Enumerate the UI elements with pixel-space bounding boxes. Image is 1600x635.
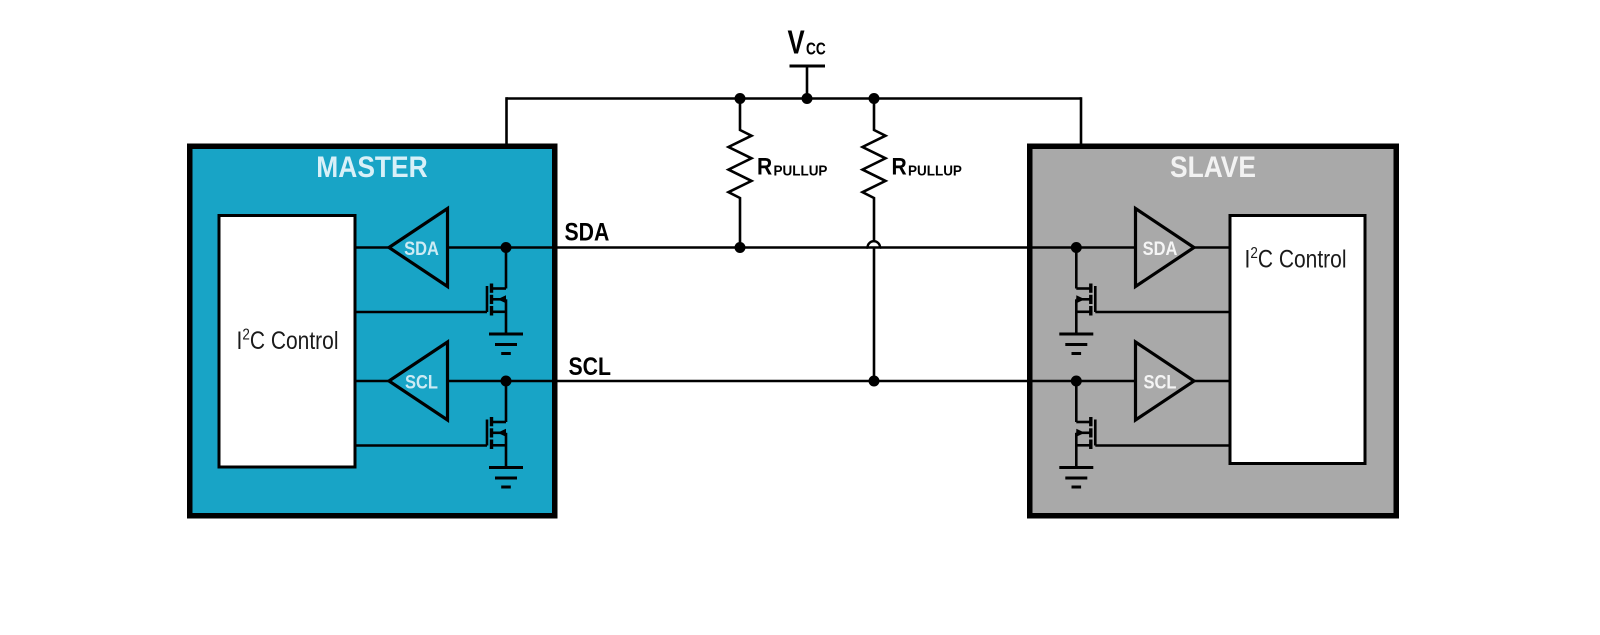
wire slave SDA tip to box — [1194, 246, 1230, 249]
svg-text:SCL: SCL — [569, 352, 611, 380]
svg-text:R: R — [892, 152, 908, 180]
svg-text:V: V — [788, 25, 805, 62]
svg-text:I2C Control: I2C Control — [1245, 245, 1347, 273]
svg-text:SDA: SDA — [1143, 238, 1178, 260]
svg-text:PULLUP: PULLUP — [774, 163, 828, 180]
svg-text:SDA: SDA — [565, 218, 610, 246]
svg-text:SCL: SCL — [405, 371, 438, 393]
ground (slave M3) — [1059, 334, 1093, 354]
buffer SCL (master) — [389, 342, 448, 420]
ground (slave M4) — [1059, 468, 1093, 488]
wire rail drop to SLAVE — [1080, 97, 1083, 146]
wire VCC stub — [806, 66, 809, 99]
junction dot SDA (master) — [501, 242, 512, 253]
svg-text:SCL: SCL — [1144, 371, 1177, 393]
junction dot SCL (master) — [501, 376, 512, 387]
svg-text:CC: CC — [806, 40, 826, 59]
block MASTER box — [190, 146, 555, 516]
block I2C Control (master) — [219, 216, 355, 468]
junction dot SDA (slave) — [1071, 242, 1082, 253]
ground (master M2) — [489, 468, 523, 488]
transistor M2 (master SCL pulldown) — [487, 381, 506, 466]
junction dot rail-R2 — [869, 93, 880, 104]
wire rail drop to MASTER — [505, 97, 508, 146]
wire gate M4 — [1095, 444, 1228, 447]
junction dot VCC-rail — [802, 93, 813, 104]
transistor M2 body arrow — [498, 429, 507, 437]
transistor M1 body arrow — [498, 295, 507, 303]
svg-text:SLAVE: SLAVE — [1170, 149, 1256, 183]
svg-text:R: R — [757, 152, 773, 180]
transistor M4 (slave SCL pulldown) — [1076, 381, 1095, 466]
wire SCL bus line — [448, 380, 1136, 383]
block SLAVE box — [1030, 146, 1397, 516]
junction dot R2-SCL — [869, 376, 880, 387]
transistor M1 (master SDA pulldown) — [487, 248, 506, 333]
junction dot rail-R1 — [735, 93, 746, 104]
label R_PULLUP (SDA) — [757, 152, 828, 180]
transistor M3 body arrow — [1076, 295, 1085, 303]
svg-text:I2C Control: I2C Control — [237, 326, 339, 354]
wire SDA bus line — [448, 246, 1136, 249]
transistor M3 (slave SDA pulldown) — [1076, 248, 1095, 333]
wire slave SCL tip to box — [1194, 380, 1230, 383]
svg-text:SDA: SDA — [404, 238, 439, 260]
crossover hop R2 over SDA — [868, 241, 881, 247]
wire master box to SCL buffer tip — [357, 380, 391, 383]
junction dot R1-SDA — [735, 242, 746, 253]
svg-text:MASTER: MASTER — [316, 149, 427, 183]
resistor R_PULLUP (SDA) — [729, 99, 752, 248]
wire gate M2 — [357, 444, 488, 447]
buffer SDA (slave) — [1136, 209, 1195, 287]
buffer SCL (slave) — [1136, 342, 1195, 420]
label R_PULLUP (SCL) — [892, 152, 963, 180]
resistor R_PULLUP (SCL) — [863, 99, 886, 382]
junction dot SCL (slave) — [1071, 376, 1082, 387]
ground (master M1) — [489, 334, 523, 354]
svg-text:PULLUP: PULLUP — [908, 163, 962, 180]
wire gate M1 — [357, 311, 488, 314]
wire master box to SDA buffer tip — [357, 246, 391, 249]
block I2C Control (slave) — [1230, 216, 1365, 464]
power symbol VCC bar — [790, 65, 826, 68]
node VCC label — [788, 25, 826, 62]
wire top VCC rail — [507, 97, 1082, 100]
wire gate M3 — [1095, 311, 1228, 314]
transistor M4 body arrow — [1076, 429, 1085, 437]
buffer SDA (master) — [389, 209, 448, 287]
